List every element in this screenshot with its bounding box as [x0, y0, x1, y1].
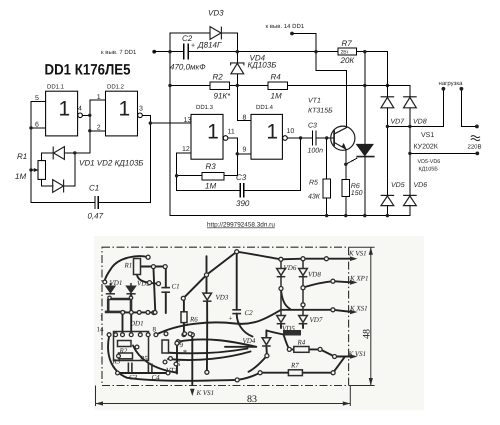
svg-text:C3: C3 [308, 123, 317, 130]
wire: R2 R4 line [170, 85, 210, 87]
svg-text:R7: R7 [290, 362, 299, 370]
diode VD6 pcb [277, 259, 286, 288]
bridge diode VD8 [403, 97, 417, 108]
trace: C1 leads [165, 267, 167, 288]
diode VD3 pcb [203, 293, 212, 301]
svg-text:10: 10 [287, 128, 295, 135]
trace: R1 right to pads row [141, 266, 166, 268]
svg-text:91К*: 91К* [214, 92, 232, 101]
load terminals [442, 87, 446, 91]
svg-text:C2: C2 [182, 34, 193, 43]
capacitor C1 pcb [161, 288, 170, 293]
svg-text:R4: R4 [271, 73, 282, 82]
svg-text:C3: C3 [236, 173, 247, 182]
svg-text:R2: R2 [213, 73, 224, 82]
resistor R3 [202, 172, 224, 180]
diode VD1 (points left) [53, 147, 64, 160]
svg-text:VD6: VD6 [414, 182, 428, 189]
resistor R6 pcb [181, 312, 187, 323]
svg-text:C2: C2 [245, 309, 254, 317]
trace: long diagonal to C2 top pad [183, 252, 236, 299]
junction dots middle [168, 50, 389, 87]
transistor VT1 [331, 126, 355, 150]
svg-text:470,0мкФ: 470,0мкФ [170, 63, 206, 72]
svg-text:VS1: VS1 [421, 132, 434, 139]
trace: R1 bottom jog [137, 275, 158, 284]
svg-text:VD6: VD6 [284, 264, 297, 272]
svg-text:DD1.2: DD1.2 [107, 84, 125, 91]
resistor R7 [338, 48, 357, 55]
svg-text:R4: R4 [297, 339, 306, 347]
capacitor C2 pcb [232, 310, 241, 314]
svg-text:8: 8 [243, 114, 247, 121]
pcb pads [103, 250, 337, 382]
svg-text:к выв. 7 DD1: к выв. 7 DD1 [101, 49, 137, 56]
svg-text:9: 9 [243, 146, 247, 153]
svg-text:1М: 1М [205, 181, 216, 190]
diode VD4 pcb [262, 338, 271, 346]
wire: R1 top lead to VD1 [42, 153, 53, 161]
svg-text:R1: R1 [17, 152, 27, 161]
svg-text:R3: R3 [112, 358, 121, 366]
svg-text:12: 12 [182, 146, 190, 153]
wire: R5 branch [326, 138, 328, 179]
resistor R1 pcb [134, 259, 141, 275]
svg-text:http://299792458.3dn.ru: http://299792458.3dn.ru [207, 222, 275, 229]
AC symbol [471, 136, 480, 141]
pcb background tint [94, 236, 424, 410]
svg-text:+: + [191, 43, 195, 50]
capacitor C3 100n [312, 130, 316, 145]
wire: output 11 to pin 9 and R3 [177, 138, 334, 216]
wire: VD1 line right side [65, 152, 90, 154]
wire: pin 12 jog to R3 and feedback line [177, 153, 240, 190]
svg-text:43К: 43К [308, 193, 321, 200]
svg-text:VD5-VD6: VD5-VD6 [418, 159, 441, 165]
svg-text:VD1 VD2 КД103Б: VD1 VD2 КД103Б [79, 159, 143, 168]
svg-text:1: 1 [207, 120, 219, 143]
svg-text:VD3: VD3 [216, 294, 229, 302]
svg-text:VD7: VD7 [310, 316, 323, 324]
wire: top rail y=51.7 [154, 33, 410, 216]
trace: neck curves DD1 to VD4/R4 [178, 339, 256, 346]
trace: pads row y=313 [126, 311, 157, 313]
svg-text:КУ202К: КУ202К [414, 143, 439, 150]
diode VD2 pcb [127, 283, 136, 294]
trace: K VS1 bottom arrow column [191, 335, 193, 385]
svg-text:1: 1 [118, 97, 130, 120]
svg-text:VD7: VD7 [391, 119, 406, 126]
dimension 83 [96, 386, 351, 407]
trace: R4 row [284, 335, 290, 350]
wire: bottom rail [170, 206, 410, 216]
wire: main left vertical x=170 down to bottom rail [169, 52, 171, 216]
wire: VD3 branch loop [170, 33, 210, 52]
resistor R4 pcb [294, 347, 309, 353]
wire: R7 node verticals [364, 52, 366, 144]
wire: pin 6 [31, 127, 46, 129]
callout arrowheads [190, 256, 358, 396]
svg-text:+: + [229, 315, 233, 323]
diode VD2 (points right) [53, 180, 64, 193]
svg-text:R7: R7 [342, 39, 353, 48]
trace: caps bottom bus [118, 372, 169, 374]
capacitor C3 390 [240, 183, 244, 197]
resistor R5 [323, 179, 330, 198]
svg-text:R6: R6 [351, 183, 360, 190]
resistor R2 [210, 82, 230, 89]
svg-text:48: 48 [362, 329, 373, 339]
svg-text:R5: R5 [139, 355, 148, 363]
svg-text:100n: 100n [308, 148, 324, 155]
resistor R3 pcb [119, 353, 133, 359]
capacitor C4 pcb [148, 364, 152, 373]
svg-text:Д814Г: Д814Г [197, 41, 222, 50]
svg-text:DD1 К176ЛЕ5: DD1 К176ЛЕ5 [45, 62, 131, 79]
svg-text:R1: R1 [124, 262, 133, 270]
svg-text:13: 13 [184, 117, 192, 124]
svg-text:C1: C1 [172, 283, 180, 291]
svg-text:VD3: VD3 [208, 9, 224, 18]
svg-text:R5: R5 [309, 179, 318, 186]
svg-text:R3: R3 [206, 162, 217, 171]
thyristor VS1 [357, 144, 373, 155]
capacitor C2 [184, 44, 189, 60]
trace: VD5/VD7 to black jumper [280, 324, 282, 328]
trace: VD8 bottom diagonal to K XP1 [303, 281, 333, 287]
svg-text:1: 1 [266, 120, 278, 143]
wire: emitter down to R6, gate node [346, 149, 357, 215]
svg-text:150: 150 [351, 190, 363, 197]
trace: C2 bottom to VD4 neck [237, 314, 253, 337]
svg-text:КТ315Б: КТ315Б [308, 108, 333, 115]
svg-text:С3: С3 [129, 373, 138, 381]
svg-text:DD1.4: DD1.4 [256, 104, 274, 111]
svg-text:5: 5 [35, 95, 39, 102]
svg-text:4: 4 [78, 106, 82, 113]
svg-text:VD4: VD4 [243, 337, 256, 345]
thick ground bars pcb [105, 295, 131, 312]
trace: VD6 bottom curve to middle bus [281, 289, 290, 309]
svg-text:1М: 1М [15, 172, 26, 181]
svg-text:К XS1: К XS1 [349, 305, 368, 313]
svg-text:DD1.1: DD1.1 [47, 84, 65, 91]
capacitor C1 [95, 196, 98, 209]
wire: VD4 vertical and pin 8 jog [236, 52, 238, 63]
IC DD1 pcb [114, 332, 149, 361]
svg-text:C1: C1 [89, 184, 99, 193]
svg-text:VT1: VT1 [308, 98, 321, 105]
wire: k vyv 14 to rail and VT1 collector [292, 34, 346, 128]
zener VD4 [231, 63, 244, 74]
svg-text:VD8: VD8 [413, 119, 427, 126]
wire: bridge verticals and load [387, 86, 477, 216]
resistor R4 [268, 82, 288, 89]
capacitor C3 pcb [128, 363, 132, 373]
wire: feedback line right of C3 to pin10 node [244, 138, 301, 190]
svg-text:11: 11 [228, 129, 235, 136]
svg-text:К VS1: К VS1 [196, 389, 215, 397]
svg-text:R6: R6 [189, 316, 198, 324]
trace: DD1 pin8 arc to bridge middle [156, 310, 281, 335]
svg-text:нагрузка: нагрузка [439, 81, 464, 87]
junction dots left block [29, 114, 152, 172]
logic gate DD1.3 [191, 114, 228, 159]
trace: left edge big sweep to bottom bus [108, 336, 237, 381]
logic gate DD1.1 [46, 91, 83, 136]
logic gate DD1.2 [106, 91, 143, 136]
diode VD3 [210, 27, 221, 40]
svg-text:DD1.3: DD1.3 [196, 104, 214, 111]
svg-text:2: 2 [97, 124, 101, 131]
resistor R5 pcb [162, 340, 169, 353]
svg-text:2Вт: 2Вт [341, 50, 350, 56]
svg-text:1: 1 [58, 97, 70, 120]
trace: top-left hook to VD1 [105, 256, 148, 281]
svg-text:КД105Б: КД105Б [419, 166, 439, 172]
trace: callout exits [326, 258, 352, 260]
svg-text:DD1: DD1 [129, 320, 144, 328]
svg-text:20К: 20К [340, 56, 356, 65]
trace: VD4 leads [265, 331, 267, 338]
svg-text:КД103Б: КД103Б [248, 60, 277, 69]
svg-text:К VS1: К VS1 [348, 250, 367, 258]
trace: bottom bus R7 row [260, 372, 288, 374]
bridge diode VD5 [381, 195, 395, 205]
wire: R1 bottom lead to VD2 [42, 179, 53, 186]
svg-text:390: 390 [236, 199, 250, 208]
svg-text:VD8: VD8 [308, 271, 321, 279]
svg-text:220В: 220В [468, 143, 482, 150]
trace: middle bus to K XS1 [281, 309, 333, 311]
jumper black bar pcb [283, 330, 301, 336]
svg-text:к выв. 14 DD1: к выв. 14 DD1 [266, 23, 305, 30]
trace: R6 column [183, 298, 185, 312]
svg-text:К VS1: К VS1 [348, 350, 367, 358]
wire: pin3 to pin13 [150, 122, 191, 124]
svg-text:С4: С4 [152, 373, 161, 381]
svg-text:VD5: VD5 [391, 182, 405, 189]
diode VD5 pcb [277, 289, 286, 324]
svg-text:VD1: VD1 [110, 279, 123, 287]
resistor R6 [342, 180, 350, 197]
svg-text:3: 3 [139, 106, 143, 113]
svg-text:0,47: 0,47 [88, 212, 104, 221]
trace: VD3 column [206, 256, 208, 293]
trace: C2 pad to VD6/VD8 top bus [237, 252, 281, 260]
bridge diode VD7 [381, 97, 395, 108]
svg-text:83: 83 [247, 394, 257, 405]
wire: output4 to pins 1,2 and down to VD1 line [83, 114, 90, 116]
wire: pins 5-6 left vertical down to R1 and bottom wire [31, 102, 46, 203]
resistor R7 pcb [288, 370, 302, 376]
diode VD7 pcb [299, 288, 308, 324]
diode VD8 pcb [299, 259, 308, 288]
svg-text:1М: 1М [271, 92, 282, 101]
bridge diode VD6 [403, 195, 417, 205]
svg-text:6: 6 [35, 121, 39, 128]
pcb board outline (chain line) [102, 247, 349, 385]
svg-text:1: 1 [100, 314, 104, 322]
resistor R2 pcb [118, 341, 132, 347]
trace: C2 column vertical [236, 252, 238, 310]
svg-text:*: * [183, 348, 187, 357]
diode VD1 pcb [106, 283, 115, 294]
svg-text:К ХР1: К ХР1 [349, 275, 368, 283]
logic gate DD1.4 [251, 114, 287, 159]
svg-text:1: 1 [97, 94, 101, 101]
resistor R1 (variable) [31, 161, 46, 180]
wire: bottom wire with C1 [31, 201, 94, 203]
trace: jumper area to VD4 top [266, 331, 283, 335]
trace: vertical from pad 177 [176, 343, 178, 373]
dimension 48 [349, 247, 375, 385]
svg-text:14: 14 [97, 326, 105, 334]
wire: output 10 to C3 100n [287, 137, 312, 139]
wire: VD2 right to vertical [64, 153, 75, 186]
trace: inner curve DD1 to VT1 [133, 346, 176, 373]
